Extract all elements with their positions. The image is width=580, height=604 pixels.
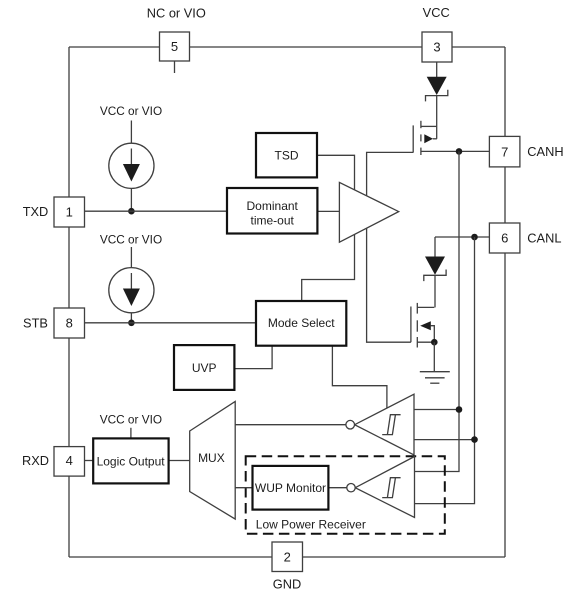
transistor Q2 (low-side) [411, 303, 434, 348]
wire STB [85, 322, 257, 324]
svg-text:8: 8 [66, 316, 73, 331]
box Logic Output [93, 438, 168, 483]
svg-text:5: 5 [171, 39, 178, 54]
wire receiver1 input H [414, 409, 459, 411]
svg-text:6: 6 [501, 231, 508, 246]
wire receiver1 output to MUX [235, 424, 346, 426]
wire NC stub below pin 5 [174, 61, 176, 73]
wire CANL [435, 236, 489, 238]
wire top rail [69, 46, 505, 48]
wire CANH to receivers [415, 151, 460, 471]
node CANL junction [471, 234, 478, 241]
pin 4 [54, 447, 85, 477]
svg-text:Mode Select: Mode Select [268, 316, 335, 330]
op-amp driver [339, 182, 398, 242]
op-amp receiver RX1 [355, 394, 414, 455]
box TSD [256, 133, 317, 177]
pin 7 [489, 136, 520, 167]
wire RXD [85, 460, 93, 462]
svg-text:UVP: UVP [192, 361, 217, 375]
svg-text:VCC or VIO: VCC or VIO [100, 104, 162, 118]
wire MUX output [168, 460, 190, 462]
svg-text:MUX: MUX [198, 451, 225, 465]
pin 8 [54, 308, 85, 338]
node STB junction [128, 320, 135, 327]
schmitt symbol RX1 [382, 415, 400, 435]
wire right rail [504, 47, 506, 557]
pin 2 [272, 542, 303, 572]
svg-text:NC or VIO: NC or VIO [147, 5, 206, 20]
schmitt symbol RX2 [382, 478, 400, 498]
current source I2 [109, 268, 154, 313]
svg-text:STB: STB [23, 316, 48, 331]
svg-text:3: 3 [433, 40, 440, 55]
node Q2 source junction [431, 339, 438, 346]
wire dominant timeout to driver [317, 210, 339, 212]
svg-text:VCC or VIO: VCC or VIO [100, 232, 162, 246]
pin 3 [422, 32, 452, 62]
node RX1 bubble [346, 420, 355, 429]
box UVP [174, 345, 234, 390]
zener D2 [424, 237, 446, 307]
box Dominant time-out [227, 188, 317, 234]
svg-text:VCC: VCC [423, 5, 450, 20]
svg-text:VCC or VIO: VCC or VIO [100, 413, 162, 427]
wire mode select to receiver [332, 346, 387, 408]
wire WUP monitor to RX2 [328, 487, 347, 489]
pin 1 [54, 197, 85, 227]
box Mode Select [256, 301, 346, 346]
svg-text:CANL: CANL [527, 231, 561, 246]
wire left rail [68, 47, 70, 557]
wire I2 to STB node [130, 313, 132, 323]
node CANH junction [456, 148, 463, 155]
svg-text:GND: GND [273, 577, 301, 592]
svg-text:Dominant: Dominant [247, 199, 299, 213]
svg-text:CANH: CANH [527, 144, 563, 159]
current source I2 supply stub [130, 247, 132, 268]
pin 5 [160, 32, 190, 61]
wire VIO stub logic output [130, 428, 132, 438]
ground [420, 372, 450, 384]
node TXD junction [128, 208, 135, 215]
svg-text:7: 7 [501, 144, 508, 159]
wire mode select to UVP [234, 346, 272, 369]
svg-text:time-out: time-out [251, 213, 295, 227]
zener D1 [426, 62, 448, 139]
svg-text:4: 4 [66, 453, 73, 468]
node receiver1 L junction [471, 436, 478, 443]
wire TSD output [302, 155, 355, 301]
box WUP Monitor [253, 466, 329, 510]
mux MUX [190, 401, 236, 519]
wire CANL to receivers [415, 237, 475, 504]
wire Q2 source to ground [433, 342, 435, 372]
wire bottom rail [69, 556, 505, 558]
wire MUX to WUP monitor [235, 487, 252, 489]
wire gate drive vertical [367, 152, 414, 342]
pin 6 [489, 223, 520, 253]
wire I1 to TXD node [130, 188, 132, 211]
svg-text:2: 2 [284, 549, 291, 564]
current source I1 [109, 143, 154, 188]
wire TXD [85, 210, 228, 212]
svg-text:1: 1 [66, 205, 73, 220]
transistor Q1 (high-side) [413, 121, 489, 155]
svg-text:Low Power Receiver: Low Power Receiver [256, 517, 366, 531]
node receiver1 H junction [456, 406, 463, 413]
svg-text:WUP Monitor: WUP Monitor [255, 481, 326, 495]
svg-text:RXD: RXD [22, 453, 49, 468]
svg-text:TSD: TSD [275, 149, 299, 163]
node RX2 bubble [347, 484, 355, 492]
dashed box low power receiver [246, 456, 445, 534]
wire receiver1 input L [414, 439, 475, 441]
current source I1 supply stub [130, 121, 132, 144]
svg-text:TXD: TXD [23, 204, 49, 219]
op-amp receiver RX2 [355, 457, 414, 518]
svg-text:Logic Output: Logic Output [97, 455, 166, 469]
